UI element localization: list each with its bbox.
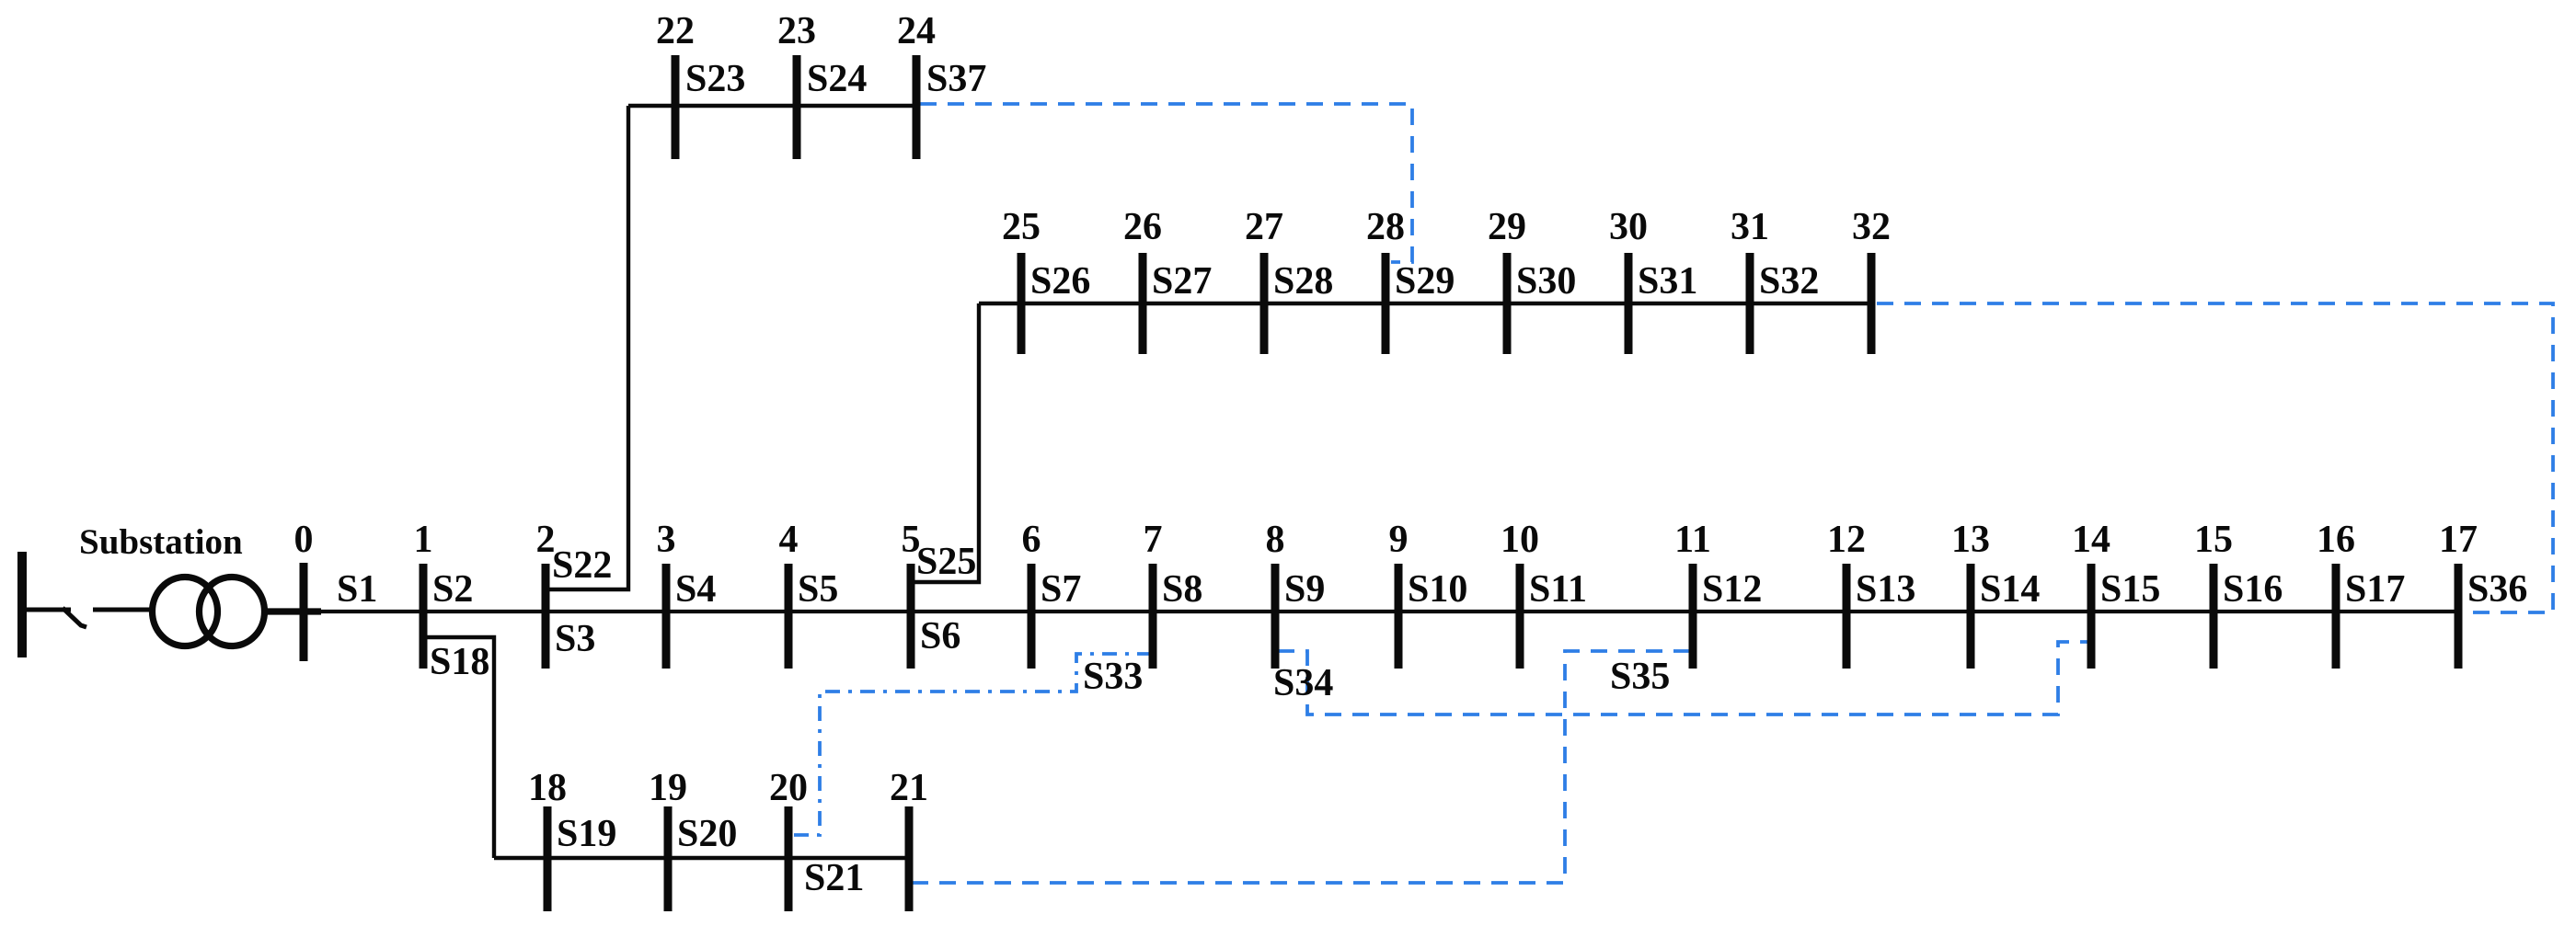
bus 31 bar [1746, 253, 1754, 354]
svg-text:S27: S27 [1152, 260, 1212, 303]
bus 6 bar [1028, 564, 1036, 669]
svg-text:S16: S16 [2223, 568, 2283, 611]
bus 12 bar [1843, 564, 1851, 669]
bus 32 bar [1868, 253, 1876, 354]
svg-text:S10: S10 [1408, 568, 1467, 611]
substation grid bus bar [17, 552, 27, 657]
svg-text:S6: S6 [920, 615, 960, 657]
svg-text:S2: S2 [432, 568, 473, 611]
bus 21 bar [905, 806, 914, 911]
wire S25 bus5 riser to middle lateral [911, 303, 979, 582]
svg-text:16: 16 [2317, 519, 2355, 561]
bus 29 bar [1503, 253, 1512, 354]
svg-text:S7: S7 [1041, 568, 1081, 611]
svg-text:S28: S28 [1273, 260, 1333, 303]
svg-text:17: 17 [2439, 519, 2478, 561]
svg-text:24: 24 [897, 10, 936, 52]
svg-text:0: 0 [294, 519, 314, 561]
svg-text:15: 15 [2194, 519, 2233, 561]
svg-text:S26: S26 [1030, 260, 1090, 303]
wire S18 bus1 drop to bottom lateral [423, 637, 494, 858]
bus 19 bar [664, 806, 673, 911]
bus 0 bar [300, 563, 308, 661]
bus 10 bar [1516, 564, 1524, 669]
svg-text:4: 4 [779, 519, 799, 561]
svg-text:S30: S30 [1516, 260, 1576, 303]
svg-text:Substation: Substation [79, 522, 243, 562]
svg-text:S9: S9 [1284, 568, 1325, 611]
bus 17 bar [2455, 564, 2463, 669]
svg-text:S18: S18 [430, 641, 489, 683]
svg-text:20: 20 [769, 767, 808, 809]
svg-text:S23: S23 [685, 58, 745, 100]
svg-text:S24: S24 [807, 58, 867, 100]
bus 22 bar [672, 55, 680, 159]
svg-text:S12: S12 [1702, 568, 1762, 611]
middle lateral wire bus25-bus32 [979, 302, 1871, 305]
bus 7 bar [1149, 564, 1157, 669]
svg-text:S15: S15 [2100, 568, 2160, 611]
wire transformer to bus 0 [265, 608, 321, 614]
svg-text:28: 28 [1366, 206, 1405, 248]
svg-text:S29: S29 [1395, 260, 1455, 303]
svg-text:S32: S32 [1759, 260, 1819, 303]
svg-text:S33: S33 [1083, 656, 1143, 698]
svg-text:S31: S31 [1638, 260, 1697, 303]
bus 16 bar [2332, 564, 2340, 669]
tie switch S35 dashed bus11-bus21 [913, 651, 1690, 883]
svg-text:S34: S34 [1273, 662, 1333, 704]
svg-text:S36: S36 [2467, 568, 2527, 611]
tie switch S34 dashed bus8-bus14 [1278, 642, 2087, 715]
bus 11 bar [1689, 564, 1697, 669]
svg-text:27: 27 [1245, 206, 1283, 248]
svg-text:31: 31 [1731, 206, 1769, 248]
transformer primary winding [153, 577, 218, 646]
svg-text:S17: S17 [2345, 568, 2405, 611]
svg-text:3: 3 [657, 519, 676, 561]
substation switch blade [63, 608, 86, 627]
wire S22 bus2 riser to top lateral [546, 106, 628, 589]
bus 5 bar [907, 564, 915, 669]
bus 2 bar [542, 564, 550, 669]
tie switch S37 dashed bus24-bus28 [920, 104, 1412, 262]
bus 13 bar [1967, 564, 1975, 669]
svg-text:29: 29 [1488, 206, 1526, 248]
bus 28 bar [1382, 253, 1390, 354]
svg-text:26: 26 [1123, 206, 1162, 248]
svg-text:19: 19 [649, 767, 687, 809]
svg-text:S22: S22 [552, 544, 612, 587]
bus 15 bar [2210, 564, 2218, 669]
svg-text:13: 13 [1951, 519, 1990, 561]
svg-text:30: 30 [1609, 206, 1648, 248]
svg-text:S8: S8 [1162, 568, 1202, 611]
svg-text:6: 6 [1022, 519, 1041, 561]
bus 3 bar [662, 564, 671, 669]
svg-text:23: 23 [777, 10, 816, 52]
bus 30 bar [1625, 253, 1633, 354]
svg-text:S11: S11 [1529, 568, 1587, 611]
bus 25 bar [1018, 253, 1026, 354]
bus 8 bar [1271, 564, 1280, 669]
transformer secondary winding [200, 577, 265, 646]
svg-text:S20: S20 [677, 813, 737, 855]
svg-text:14: 14 [2072, 519, 2110, 561]
svg-text:7: 7 [1144, 519, 1163, 561]
svg-text:11: 11 [1674, 519, 1711, 561]
svg-text:S1: S1 [337, 568, 377, 611]
svg-text:18: 18 [528, 767, 567, 809]
bus 9 bar [1395, 564, 1403, 669]
svg-text:S37: S37 [926, 58, 986, 100]
svg-text:S21: S21 [804, 857, 864, 899]
svg-text:S3: S3 [555, 618, 595, 660]
svg-text:S19: S19 [557, 813, 616, 855]
bus 20 bar [785, 806, 793, 911]
bus 4 bar [785, 564, 793, 669]
svg-text:10: 10 [1501, 519, 1539, 561]
svg-text:8: 8 [1266, 519, 1285, 561]
bus 18 bar [544, 806, 552, 911]
top lateral wire bus22-bus24 [628, 104, 916, 108]
bottom lateral wire bus18-bus21 [494, 856, 911, 860]
svg-text:S4: S4 [675, 568, 716, 611]
svg-text:S35: S35 [1610, 656, 1670, 698]
bus 24 bar [913, 55, 921, 159]
svg-text:22: 22 [656, 10, 695, 52]
svg-text:21: 21 [890, 767, 928, 809]
bus 1 bar [420, 564, 428, 669]
bus 27 bar [1260, 253, 1269, 354]
svg-text:S25: S25 [916, 541, 976, 583]
tie switch S36 dashed bus32-bus17 [1877, 303, 2553, 612]
svg-text:25: 25 [1002, 206, 1041, 248]
svg-text:S5: S5 [798, 568, 838, 611]
wire switch to transformer [93, 608, 155, 612]
bus 14 bar [2087, 564, 2096, 669]
bus 26 bar [1139, 253, 1147, 354]
svg-text:S13: S13 [1856, 568, 1915, 611]
svg-text:9: 9 [1389, 519, 1409, 561]
wire substation stub [26, 608, 71, 612]
svg-text:1: 1 [414, 519, 433, 561]
svg-text:12: 12 [1827, 519, 1866, 561]
svg-text:S14: S14 [1980, 568, 2040, 611]
bus 23 bar [793, 55, 801, 159]
svg-text:32: 32 [1852, 206, 1891, 248]
tie switch S33 dashed bus7-bus20 [792, 654, 1152, 835]
main feeder wire bus0-bus17 [304, 610, 2458, 613]
